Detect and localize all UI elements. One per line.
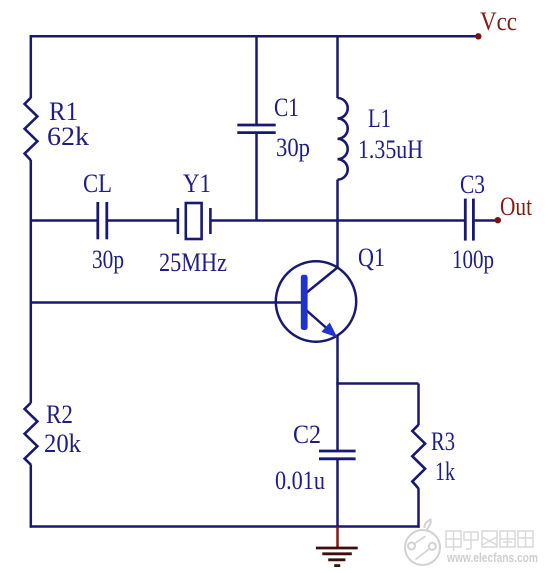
wire: R3 to bottom rail <box>417 488 420 528</box>
svg-text:Y1: Y1 <box>183 169 211 198</box>
svg-text:L1: L1 <box>368 104 391 133</box>
wire: middle rail left of CL <box>30 219 98 222</box>
resistor R3 <box>412 425 425 489</box>
transistor Q1 emitter stroke <box>306 310 337 338</box>
svg-text:Out: Out <box>500 192 533 221</box>
svg-text:100p: 100p <box>452 245 494 274</box>
ground <box>316 527 358 566</box>
wire: C3 to Out node <box>473 219 496 222</box>
watermark text 电子发烧友 (drawn glyph boxes) <box>446 531 533 551</box>
wire: bottom rail <box>30 525 420 528</box>
wire: between CL and Y1 <box>107 219 178 222</box>
svg-text:62k: 62k <box>47 122 89 151</box>
svg-text:www.elecfans.com: www.elecfans.com <box>446 550 538 565</box>
svg-text:1k: 1k <box>435 457 455 486</box>
resistor R2 <box>25 403 38 465</box>
wire: base wire from left rail <box>30 301 301 304</box>
watermark logo (elecfans) <box>405 520 440 566</box>
svg-text:C2: C2 <box>293 420 321 449</box>
wire: middle rail from Y1 to C3 <box>210 219 465 222</box>
svg-text:C1: C1 <box>274 93 299 122</box>
wire: C1 branch vertical lower <box>255 133 258 221</box>
wire: C1 branch vertical upper <box>255 36 258 125</box>
wire: L1 branch vertical upper <box>336 36 339 98</box>
capacitor C2 <box>319 451 356 459</box>
transistor Q1 collector stroke <box>306 268 338 294</box>
wire: top rail from left vertical to Vcc <box>30 35 478 38</box>
svg-text:R3: R3 <box>431 427 455 456</box>
svg-text:CL: CL <box>83 169 112 198</box>
wire: emitter junction to R3 <box>336 384 418 426</box>
inductor L1 <box>338 98 348 180</box>
capacitor C1 <box>237 125 275 133</box>
capacitor CL <box>98 202 107 239</box>
node Out dot <box>495 217 501 223</box>
resistor R1 <box>25 98 38 161</box>
wire: left vertical lower segment <box>30 464 33 527</box>
wire: C2 to bottom rail <box>336 459 339 528</box>
wire: left vertical upper segment <box>30 35 33 98</box>
svg-text:Q1: Q1 <box>358 243 385 272</box>
svg-text:30p: 30p <box>276 133 310 162</box>
svg-text:30p: 30p <box>92 245 124 274</box>
node Vcc dot <box>475 33 481 39</box>
svg-text:25MHz: 25MHz <box>159 248 227 277</box>
svg-text:0.01u: 0.01u <box>275 466 325 495</box>
svg-text:R2: R2 <box>46 400 73 429</box>
svg-text:1.35uH: 1.35uH <box>358 135 423 164</box>
svg-text:20k: 20k <box>44 429 81 458</box>
wire: emitter down to ground junction <box>336 336 339 450</box>
crystal Y1 <box>178 203 211 239</box>
transistor Q1 base bar <box>301 275 308 330</box>
svg-text:Vcc: Vcc <box>480 7 517 36</box>
svg-text:C3: C3 <box>460 170 485 199</box>
capacitor C3 <box>465 199 473 241</box>
transistor Q1 emitter arrow <box>321 323 337 338</box>
wire: L1 to collector junction <box>336 180 339 268</box>
transistor Q1 body circle <box>276 261 356 341</box>
wire: left vertical middle segment <box>30 160 33 403</box>
